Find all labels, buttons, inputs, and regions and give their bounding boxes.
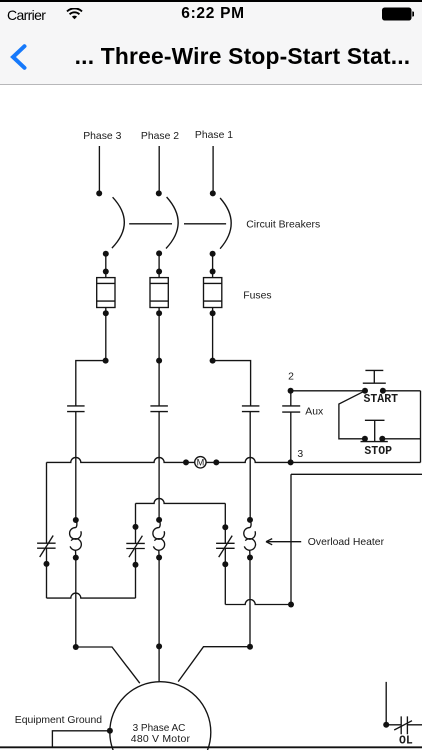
node motor lead T3 — [73, 644, 79, 650]
node heater H1 top — [247, 517, 253, 523]
overload trip element OL3 branch — [46, 462, 48, 598]
contactor M main contact pole2 — [150, 406, 168, 412]
fuse F1 body — [204, 278, 222, 308]
svg-text:Overload Heater: Overload Heater — [308, 537, 385, 548]
node 3 junction — [288, 459, 294, 465]
bottom bus wire — [0, 746, 422, 748]
wifi icon — [66, 8, 83, 20]
circuit breaker CB pole 1 arc — [220, 198, 231, 249]
wire breaker3 to fuse F3 — [105, 254, 107, 278]
overload heater coil H2 — [159, 520, 160, 528]
wire right branch to edge — [291, 473, 422, 475]
OL2 trip slash — [129, 536, 143, 558]
svg-text:STOP: STOP — [364, 445, 392, 458]
svg-text:START: START — [364, 393, 399, 406]
node breaker CB1 top — [210, 190, 216, 196]
node fuse F3 top — [103, 269, 109, 275]
node jog phase2 — [156, 358, 162, 364]
svg-text:OL: OL — [399, 735, 413, 748]
contactor M main contact pole3 — [67, 406, 85, 412]
wire node2 to START — [290, 390, 420, 392]
svg-text:480 V Motor: 480 V Motor — [131, 733, 191, 745]
svg-text:Fuses: Fuses — [243, 291, 271, 302]
OL1 trip slash — [219, 536, 233, 558]
wire OL3 bottom to OL2 with hop — [47, 593, 136, 598]
aux contact M bars — [282, 406, 300, 412]
wire motor lead right — [178, 647, 250, 682]
wire jog phase1 right — [213, 361, 251, 406]
node trip OL3 bottom — [44, 561, 50, 567]
node breaker CB2 top — [156, 190, 162, 196]
svg-text:Phase 1: Phase 1 — [195, 130, 233, 141]
equipment ground wire — [52, 731, 110, 748]
node 2 junction — [288, 388, 294, 394]
node jog phase1 — [210, 358, 216, 364]
breaker linkage bar left — [129, 223, 172, 225]
svg-text:M: M — [197, 458, 205, 468]
node trip OL1 bottom — [222, 561, 228, 567]
OL1 trip bars — [216, 543, 235, 548]
svg-text:3: 3 — [297, 449, 303, 460]
wire fuse F3 down — [105, 308, 107, 361]
node trip OL2 top — [133, 524, 139, 530]
node right riser bottom — [288, 602, 294, 608]
wire phase 3 drop — [98, 146, 100, 191]
wire STOP right — [382, 438, 420, 440]
wire phase 1 drop — [212, 146, 214, 191]
back chevron — [9, 44, 28, 70]
node breaker CB3 bottom — [103, 251, 109, 257]
overload heater label arrow — [266, 539, 301, 545]
node fuse F3 bottom — [103, 310, 109, 316]
node STOP right terminal — [379, 436, 385, 442]
wire coil H2 down to motor — [158, 558, 160, 682]
overload contact OL wire bottom right — [386, 682, 422, 725]
svg-text:Aux: Aux — [305, 406, 324, 417]
fuse F3 body — [97, 278, 115, 308]
node START right terminal — [380, 388, 386, 394]
svg-text:Phase 3: Phase 3 — [83, 131, 121, 142]
node trip OL1 top — [222, 524, 228, 530]
node STOP left terminal — [362, 436, 368, 442]
node fuse F2 bottom — [156, 310, 162, 316]
overload trip element OL1 branch — [224, 503, 226, 604]
node breaker CB2 bottom — [156, 250, 162, 256]
wire coil H1 down — [249, 558, 251, 647]
node heater H1 bottom — [247, 555, 253, 561]
node fuse F2 top — [156, 269, 162, 275]
node ground at motor frame — [107, 728, 113, 734]
node trip OL2 bottom — [133, 562, 139, 568]
node heater H2 top — [156, 517, 162, 523]
aux contact branch wire — [290, 391, 292, 463]
wire pole1 contact to coil — [249, 412, 251, 520]
OL3 trip bars — [37, 543, 56, 548]
wire coil H3 down — [75, 558, 77, 647]
node coil M right terminal — [213, 459, 219, 465]
wire breaker2 to fuse F2 — [158, 253, 160, 277]
overload heater coil H1 — [250, 520, 251, 528]
node jog phase3 — [103, 358, 109, 364]
overload heater coil H3 — [76, 520, 77, 528]
node heater H3 bottom — [73, 555, 79, 561]
node motor lead T1 — [247, 644, 253, 650]
svg-text:Circuit Breakers: Circuit Breakers — [246, 220, 320, 231]
pushbutton STOP symbol — [361, 420, 388, 441]
node breaker CB1 bottom — [210, 251, 216, 257]
wire fuse F1 down — [212, 308, 214, 361]
wire phase 2 drop — [158, 146, 160, 191]
svg-text:Equipment Ground: Equipment Ground — [15, 715, 102, 726]
battery icon — [381, 7, 414, 21]
control rung with hops and M coil gap — [47, 457, 421, 462]
node breaker CB3 top — [96, 190, 102, 196]
wire motor lead left — [76, 647, 140, 683]
svg-text:Phase 2: Phase 2 — [141, 131, 179, 142]
coil M circle — [195, 457, 206, 468]
wire fuse F2 down — [158, 308, 160, 361]
motor circle — [110, 682, 211, 750]
wire pole2 contact to coil — [158, 412, 160, 520]
OL2 trip bars — [126, 543, 145, 548]
wire OL1 bottom to right riser with hop — [225, 600, 291, 605]
wire breaker1 to fuse F1 — [212, 254, 214, 278]
wire phase2 straight — [158, 361, 160, 406]
node motor lead T2 — [156, 643, 162, 649]
node OL contact wire — [383, 722, 389, 728]
breaker linkage bar right — [184, 223, 226, 225]
svg-text:2: 2 — [288, 372, 294, 383]
fuse F2 body — [150, 278, 168, 308]
contactor M main contact pole1 — [242, 406, 260, 412]
overload trip element OL2 branch — [135, 503, 137, 598]
pushbutton START symbol — [363, 370, 386, 383]
circuit breaker CB pole 3 arc — [112, 197, 124, 248]
node fuse F1 top — [210, 269, 216, 275]
OL contact slash — [394, 721, 412, 730]
wire right riser down — [290, 474, 292, 604]
node coil M left terminal — [183, 459, 189, 465]
node START left terminal — [362, 388, 368, 394]
wire pole3 contact to coil — [75, 412, 77, 520]
wire START left to STOP left — [339, 391, 365, 439]
wire jog phase3 left — [76, 361, 106, 406]
OL contact plates — [401, 716, 407, 734]
wire OL2 top to OL3 top with hop — [136, 498, 226, 503]
OL3 trip slash — [40, 536, 54, 558]
node heater H3 top — [73, 517, 79, 523]
node heater H2 bottom — [156, 555, 162, 561]
circuit breaker CB pole 2 arc — [166, 197, 178, 249]
wire right riser START to rung — [420, 391, 422, 463]
node fuse F1 bottom — [210, 310, 216, 316]
